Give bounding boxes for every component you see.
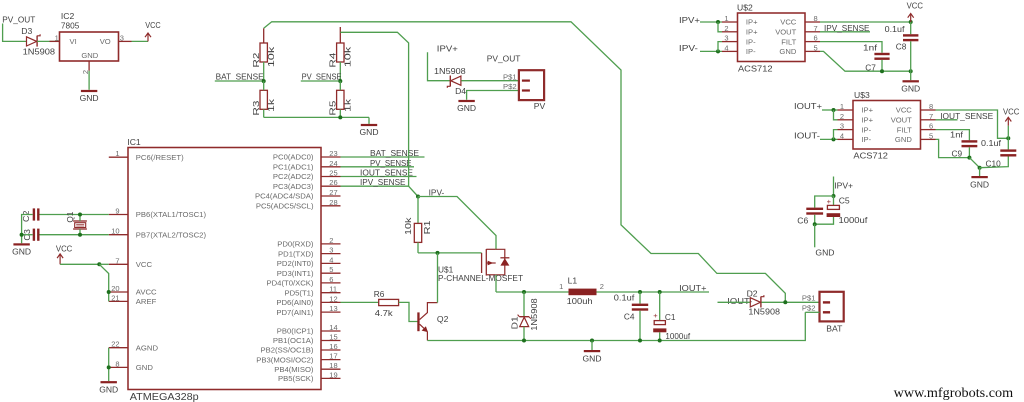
wire drain <box>495 275 497 292</box>
IC2 pin 2 <box>81 61 90 74</box>
svg-text:GND: GND <box>970 179 989 189</box>
svg-text:5: 5 <box>814 43 818 52</box>
wire <box>132 40 149 42</box>
IC1 pin 4 PD2(INT0) <box>277 255 341 268</box>
svg-text:4: 4 <box>724 43 728 52</box>
svg-text:R6: R6 <box>374 289 385 299</box>
wire <box>108 348 110 381</box>
wire <box>263 81 265 90</box>
svg-text:10k: 10k <box>266 46 276 68</box>
svg-text:PD2(INT0): PD2(INT0) <box>277 259 314 268</box>
IC1 pin 3 PD1(TXD) <box>278 246 340 259</box>
junction <box>658 339 662 343</box>
wire <box>263 28 265 43</box>
svg-text:GND: GND <box>901 84 920 94</box>
svg-text:IP+: IP+ <box>861 106 873 115</box>
svg-text:D1: D1 <box>510 316 520 329</box>
wire <box>1007 138 1009 149</box>
svg-text:D2: D2 <box>747 288 758 298</box>
svg-text:5: 5 <box>329 265 333 274</box>
svg-text:L1: L1 <box>568 275 578 285</box>
svg-text:VI: VI <box>70 37 77 46</box>
svg-text:P$1: P$1 <box>802 293 816 302</box>
svg-text:PV_SENSE: PV_SENSE <box>302 71 342 81</box>
wire <box>659 292 661 321</box>
wire <box>340 32 408 186</box>
wire <box>936 130 970 141</box>
wire GND rail <box>427 312 805 340</box>
IC1 pin 26 PC3(ADC3) <box>273 178 341 191</box>
svg-text:Q2: Q2 <box>437 314 449 324</box>
capacitor C10 <box>981 138 1016 168</box>
power flag VCC <box>56 243 72 264</box>
svg-text:7: 7 <box>115 256 119 265</box>
connector PV <box>503 70 546 111</box>
junction <box>658 290 662 294</box>
wire <box>820 51 911 71</box>
U$3 pin 5 <box>921 131 936 140</box>
junction <box>967 156 971 160</box>
svg-text:FILT: FILT <box>897 125 912 134</box>
wire <box>718 22 722 32</box>
svg-text:24: 24 <box>329 159 337 168</box>
svg-text:PB2(SS/OC1B): PB2(SS/OC1B) <box>261 346 314 355</box>
ground <box>970 168 989 190</box>
svg-text:VCC: VCC <box>780 18 797 27</box>
svg-text:BAT_SENSE: BAT_SENSE <box>370 148 419 158</box>
svg-text:3: 3 <box>724 34 728 43</box>
junction <box>832 194 836 198</box>
svg-text:C6: C6 <box>797 215 808 225</box>
svg-text:17: 17 <box>329 352 337 361</box>
svg-text:IP-: IP- <box>746 37 756 46</box>
svg-text:3: 3 <box>120 33 124 42</box>
wire <box>99 263 109 265</box>
wire IPV_SENSE <box>341 185 409 187</box>
wire gate <box>418 252 482 254</box>
wire VCC <box>936 110 1009 138</box>
svg-text:IP+: IP+ <box>861 116 873 125</box>
wire <box>467 91 519 100</box>
junction <box>97 262 101 266</box>
svg-text:1N5908: 1N5908 <box>529 298 539 331</box>
svg-text:C8: C8 <box>896 42 907 52</box>
junction <box>638 339 642 343</box>
IC1 pin 21 AREF <box>109 293 157 306</box>
svg-text:PB6(XTAL1/TOSC1): PB6(XTAL1/TOSC1) <box>136 210 207 219</box>
svg-text:VO: VO <box>100 37 111 46</box>
wire <box>88 71 90 90</box>
svg-text:BAT_SENSE: BAT_SENSE <box>216 71 264 81</box>
svg-text:2: 2 <box>840 112 844 121</box>
wire <box>523 327 525 341</box>
svg-text:IP-: IP- <box>746 47 756 56</box>
wire <box>461 80 519 82</box>
svg-text:2: 2 <box>329 236 333 245</box>
current sensor U$3 ACS712 <box>853 90 921 160</box>
wire <box>834 110 838 120</box>
svg-text:1000uf: 1000uf <box>665 331 690 341</box>
junction <box>78 233 82 237</box>
wire <box>1007 126 1009 139</box>
svg-text:PB1(OC1A): PB1(OC1A) <box>273 336 314 345</box>
current sensor U$2 ACS712 <box>737 3 805 74</box>
svg-text:FILT: FILT <box>781 37 796 46</box>
svg-text:IOUT+: IOUT+ <box>679 283 706 293</box>
svg-text:VCC: VCC <box>896 106 913 115</box>
svg-text:21: 21 <box>111 293 119 302</box>
junction <box>107 365 111 369</box>
svg-text:23: 23 <box>329 149 337 158</box>
capacitor C8 <box>885 24 919 52</box>
svg-text:IP-: IP- <box>861 135 871 144</box>
U$2 pin 7 <box>805 24 820 33</box>
wire BAT_SENSE <box>341 156 425 158</box>
svg-text:8: 8 <box>929 102 933 111</box>
svg-text:0.1uf: 0.1uf <box>981 138 1002 148</box>
capacitor C2 <box>21 208 40 222</box>
svg-text:GND: GND <box>136 363 154 372</box>
svg-text:PV_OUT: PV_OUT <box>2 14 36 24</box>
svg-text:25: 25 <box>329 169 337 178</box>
junction <box>716 49 720 53</box>
wire <box>22 215 33 244</box>
svg-text:28: 28 <box>329 198 337 207</box>
IC1 pin 28 PC5(ADC5/SCL) <box>256 198 341 211</box>
wire <box>700 21 722 23</box>
svg-text:IP+: IP+ <box>746 18 758 27</box>
wire <box>639 292 641 304</box>
wire PV_SENSE <box>341 166 415 168</box>
svg-text:4: 4 <box>840 131 844 140</box>
voltage regulator IC2 7805 <box>60 11 119 61</box>
svg-text:PD0(RXD): PD0(RXD) <box>277 240 314 249</box>
svg-text:1: 1 <box>724 14 728 23</box>
wire <box>815 217 834 224</box>
transistor Q2 <box>417 303 448 341</box>
resistor R1 <box>403 216 432 242</box>
svg-text:1k: 1k <box>342 98 352 112</box>
IC1 pin 5 PD3(INT1) <box>277 265 341 278</box>
wire <box>820 42 882 53</box>
junction <box>107 290 111 294</box>
wire <box>833 196 835 205</box>
ground <box>901 71 920 93</box>
wire <box>718 42 722 52</box>
wire <box>215 80 264 82</box>
svg-text:AREF: AREF <box>136 297 157 306</box>
ground <box>583 341 602 364</box>
IC1 pin 14 PB0(ICP1) <box>277 323 341 336</box>
svg-text:IC1: IC1 <box>127 137 141 147</box>
junction <box>436 251 440 255</box>
svg-text:PC2(ADC2): PC2(ADC2) <box>273 172 314 181</box>
junction <box>783 300 787 304</box>
IC1 pin 10 PB7(XTAL2/TOSC2) <box>109 227 207 240</box>
ground <box>99 381 118 394</box>
svg-text:P-CHANNEL-MOSFET: P-CHANNEL-MOSFET <box>438 273 523 283</box>
svg-text:R4: R4 <box>328 52 338 68</box>
IC1 pin 17 PB3(MOSI/OC2) <box>256 352 340 365</box>
svg-text:20: 20 <box>111 284 119 293</box>
wire <box>417 242 419 253</box>
svg-text:16: 16 <box>329 342 337 351</box>
svg-text:4.7k: 4.7k <box>375 308 394 318</box>
resistor R2 <box>251 43 276 68</box>
svg-text:10k: 10k <box>403 216 413 235</box>
svg-text:2: 2 <box>724 24 728 33</box>
svg-text:0.1uf: 0.1uf <box>885 24 906 34</box>
diode D4 <box>434 66 466 96</box>
svg-text:IOUT-: IOUT- <box>794 130 820 140</box>
svg-text:R3: R3 <box>251 100 261 116</box>
wire <box>833 177 835 197</box>
wire <box>339 62 341 81</box>
wire <box>417 197 419 224</box>
svg-text:10k: 10k <box>342 46 352 68</box>
wire <box>639 311 641 341</box>
svg-text:PC1(ADC1): PC1(ADC1) <box>273 163 314 172</box>
wire <box>523 292 525 316</box>
IC2 pin 1 <box>50 33 60 42</box>
wire <box>22 234 33 236</box>
ground <box>360 117 379 137</box>
svg-text:12: 12 <box>329 294 337 303</box>
wire <box>99 264 108 301</box>
capacitor C4 <box>614 292 648 321</box>
svg-text:PB7(XTAL2/TOSC2): PB7(XTAL2/TOSC2) <box>136 230 207 239</box>
svg-text:15: 15 <box>329 333 337 342</box>
wire <box>659 332 661 340</box>
svg-text:U$2: U$2 <box>737 3 753 13</box>
U$3 pin 4 <box>838 131 854 140</box>
IC1 pin 8 GND <box>109 359 154 372</box>
svg-text:PV_SENSE: PV_SENSE <box>370 158 412 168</box>
wire <box>339 81 341 90</box>
junction <box>590 339 594 343</box>
svg-text:1N5908: 1N5908 <box>23 47 56 57</box>
svg-text:7805: 7805 <box>61 21 80 31</box>
junction <box>338 79 342 83</box>
ground <box>80 90 99 103</box>
svg-text:VOUT: VOUT <box>775 28 796 37</box>
wire <box>881 60 883 71</box>
IC1 pin 2 PD0(RXD) <box>277 236 340 249</box>
svg-text:PV: PV <box>534 101 546 111</box>
svg-text:6: 6 <box>329 275 333 284</box>
wire <box>264 116 369 118</box>
wire <box>263 62 265 81</box>
wire IPV_SENSE <box>820 31 870 33</box>
svg-text:1k: 1k <box>266 98 276 112</box>
wire <box>37 40 59 42</box>
svg-text:IP+: IP+ <box>746 28 758 37</box>
power flag VCC <box>907 1 923 22</box>
svg-text:3: 3 <box>329 246 333 255</box>
svg-text:IPV-: IPV- <box>679 43 698 53</box>
junction <box>978 166 982 170</box>
svg-text:18: 18 <box>329 361 337 370</box>
IC1 pin 13 PD7(AIN1) <box>276 304 340 317</box>
wire <box>409 186 418 196</box>
wire <box>264 22 786 303</box>
IC1 pin 27 PC4(ADC4/SDA) <box>255 188 341 201</box>
IC1 pin 9 PB6(XTAL1/TOSC1) <box>109 207 207 220</box>
svg-text:IOUT_SENSE: IOUT_SENSE <box>360 168 413 178</box>
resistor R6 <box>374 289 399 318</box>
svg-text:3: 3 <box>840 122 844 131</box>
wire node IOUT+ <box>597 291 710 293</box>
junction <box>522 339 526 343</box>
svg-text:AGND: AGND <box>136 343 159 352</box>
wire <box>339 109 341 117</box>
svg-text:1: 1 <box>559 282 563 291</box>
svg-text:R1: R1 <box>422 220 432 235</box>
svg-text:19: 19 <box>329 370 337 379</box>
wire <box>822 109 838 111</box>
resistor R5 <box>328 90 353 115</box>
svg-text:IOUT_SENSE: IOUT_SENSE <box>940 111 993 121</box>
wire <box>820 138 838 140</box>
U$2 pin 6 <box>805 34 820 43</box>
capacitor C7 <box>863 42 890 72</box>
capacitor C5 polarized <box>827 195 868 225</box>
svg-text:PD6(AIN0): PD6(AIN0) <box>276 298 314 307</box>
junction <box>638 290 642 294</box>
svg-text:0.1uf: 0.1uf <box>614 292 635 302</box>
inductor L1 <box>559 275 604 306</box>
svg-text:14: 14 <box>329 323 337 332</box>
wire <box>60 263 99 265</box>
svg-text:PD5(T1): PD5(T1) <box>284 288 313 297</box>
svg-text:GND: GND <box>815 247 834 257</box>
U$2 pin 2 <box>722 24 738 33</box>
svg-text:ACS712: ACS712 <box>738 64 773 74</box>
U$2 pin 3 <box>722 34 738 43</box>
svg-text:PC3(ADC3): PC3(ADC3) <box>273 182 314 191</box>
junction <box>716 20 720 24</box>
junction <box>880 69 884 73</box>
svg-text:VCC: VCC <box>1003 107 1019 117</box>
IC1 pin 24 PC1(ADC1) <box>273 159 341 172</box>
svg-text:AVCC: AVCC <box>136 288 157 297</box>
svg-text:7: 7 <box>929 112 933 121</box>
wire <box>815 196 834 208</box>
ground <box>12 243 31 256</box>
svg-text:PC0(ADC0): PC0(ADC0) <box>273 153 314 162</box>
IC1 pin 25 PC2(ADC2) <box>273 169 341 182</box>
crystal Q1 <box>65 211 87 229</box>
U$3 pin 1 <box>838 102 854 111</box>
svg-text:D3: D3 <box>21 26 32 36</box>
wire <box>805 311 819 313</box>
svg-text:6: 6 <box>814 34 818 43</box>
svg-text:22: 22 <box>111 340 119 349</box>
wire <box>718 301 751 303</box>
svg-text:7: 7 <box>814 24 818 33</box>
wire <box>399 302 418 321</box>
svg-text:BAT: BAT <box>826 323 843 333</box>
IC1 pin 20 AVCC <box>109 284 157 297</box>
svg-text:IC2: IC2 <box>61 11 75 21</box>
svg-text:GND: GND <box>99 384 118 394</box>
svg-text:8: 8 <box>115 359 119 368</box>
svg-text:IPV_SENSE: IPV_SENSE <box>824 23 870 33</box>
wire <box>339 27 341 43</box>
IC1 pin 15 PB1(OC1A) <box>273 333 341 346</box>
svg-text:GND: GND <box>360 127 379 137</box>
IC2 pin 3 <box>119 33 132 42</box>
svg-text:11: 11 <box>329 285 337 294</box>
svg-text:C2: C2 <box>21 210 31 222</box>
svg-text:GND: GND <box>779 47 796 56</box>
svg-text:VCC: VCC <box>56 243 72 253</box>
svg-text:VCC: VCC <box>136 260 153 269</box>
svg-text:GND: GND <box>583 353 602 363</box>
junction <box>338 115 342 119</box>
svg-text:IP-: IP- <box>861 125 871 134</box>
svg-text:C9: C9 <box>952 148 963 158</box>
svg-text:R2: R2 <box>251 52 261 68</box>
svg-text:GND: GND <box>81 51 98 60</box>
wire <box>263 109 265 117</box>
IC1 pin 12 PD6(AIN0) <box>276 294 340 307</box>
U$3 pin 6 <box>921 122 936 131</box>
junction <box>522 290 526 294</box>
svg-text:4: 4 <box>329 255 333 264</box>
svg-text:D4: D4 <box>455 86 466 96</box>
resistor R4 <box>328 43 353 68</box>
wire node PWM <box>496 291 569 293</box>
wire <box>936 139 970 157</box>
svg-text:Q1: Q1 <box>65 211 75 222</box>
svg-text:+: + <box>827 197 832 206</box>
svg-text:1N5908: 1N5908 <box>748 307 780 317</box>
wire <box>910 41 912 71</box>
svg-text:1: 1 <box>115 149 119 158</box>
svg-text:P$2: P$2 <box>503 82 517 91</box>
IC1 pin 6 PD4(T0/XCK) <box>267 275 341 288</box>
U$3 pin 3 <box>838 122 854 131</box>
svg-text:PB3(MOSI/OC2): PB3(MOSI/OC2) <box>256 355 314 364</box>
U$2 pin 5 <box>805 43 820 52</box>
capacitor C3 <box>22 229 40 241</box>
svg-text:IOUT+: IOUT+ <box>794 101 822 111</box>
svg-text:IPV+: IPV+ <box>834 181 853 191</box>
wire <box>814 224 816 247</box>
wire <box>910 22 912 34</box>
junction <box>262 79 266 83</box>
svg-text:C4: C4 <box>624 312 635 322</box>
U$3 pin 7 <box>921 112 936 121</box>
svg-text:PD3(INT1): PD3(INT1) <box>277 269 314 278</box>
svg-text:IPV+: IPV+ <box>679 15 700 25</box>
U$3 pin 2 <box>838 112 854 121</box>
wire <box>980 157 1009 168</box>
svg-text:www.mfgrobots.com: www.mfgrobots.com <box>894 385 1014 400</box>
IC1 pin 11 PD5(T1) <box>284 285 340 298</box>
svg-text:1nf: 1nf <box>863 42 878 52</box>
svg-text:PB0(ICP1): PB0(ICP1) <box>277 327 314 336</box>
svg-text:1N5908: 1N5908 <box>434 66 466 76</box>
svg-text:IPV+: IPV+ <box>437 43 458 53</box>
svg-text:PV_OUT: PV_OUT <box>487 54 521 64</box>
power flag VCC <box>145 20 161 41</box>
svg-text:6: 6 <box>929 122 933 131</box>
svg-text:VCC: VCC <box>145 20 161 30</box>
junction <box>832 137 836 141</box>
diode D1 zener <box>510 298 539 331</box>
